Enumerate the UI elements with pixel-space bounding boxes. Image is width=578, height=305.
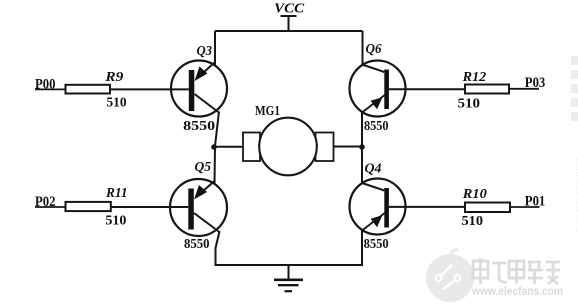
svg-text:P00: P00: [35, 77, 56, 93]
svg-text:8550: 8550: [184, 236, 210, 251]
svg-text:Q4: Q4: [365, 161, 382, 176]
svg-text:8550: 8550: [183, 118, 215, 133]
svg-text:Q3: Q3: [197, 44, 213, 59]
svg-text:510: 510: [107, 94, 127, 109]
svg-text:8550: 8550: [364, 236, 389, 251]
svg-text:Q6: Q6: [366, 42, 382, 57]
svg-text:510: 510: [105, 213, 126, 228]
svg-text:R11: R11: [105, 186, 127, 201]
svg-text:R9: R9: [104, 70, 123, 85]
svg-text:Q5: Q5: [195, 160, 212, 175]
svg-text:R12: R12: [462, 70, 487, 85]
svg-text:P03: P03: [525, 75, 546, 91]
svg-text:P01: P01: [525, 193, 546, 209]
svg-text:www.elecfans.com: www.elecfans.com: [471, 284, 563, 298]
svg-text:510: 510: [462, 213, 484, 228]
svg-text:510: 510: [458, 95, 481, 110]
svg-text:VCC: VCC: [274, 2, 305, 17]
svg-text:P02: P02: [35, 194, 56, 210]
svg-text:8550: 8550: [364, 118, 389, 133]
svg-text:MG1: MG1: [255, 104, 280, 119]
svg-text:R10: R10: [462, 187, 487, 202]
